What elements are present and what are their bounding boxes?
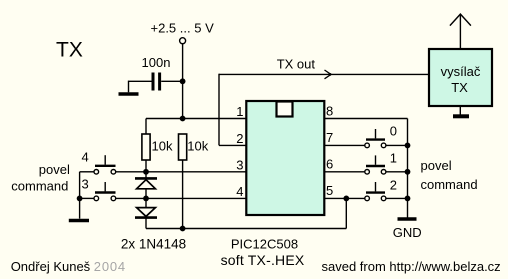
- wire pin5 row: [324, 197, 365, 199]
- svg-text:GND: GND: [393, 225, 422, 240]
- pushbutton S2: [365, 177, 397, 200]
- resistor R2 10k: [179, 134, 187, 229]
- ground (right bus): [398, 217, 417, 221]
- resistor R1 10k: [142, 119, 150, 179]
- node bus b0: [405, 143, 411, 149]
- svg-text:6: 6: [326, 157, 333, 172]
- antenna: [450, 14, 471, 49]
- diode D2 1N4148: [135, 198, 157, 228]
- wire bottom rail: [146, 228, 346, 230]
- ground (transmitter): [453, 106, 469, 116]
- wire button3 left: [80, 197, 94, 199]
- svg-text:PIC12C508: PIC12C508: [231, 236, 298, 251]
- wire supply vertical: [182, 44, 184, 119]
- node bottom junction: [180, 226, 186, 232]
- svg-text:povel: povel: [39, 162, 70, 177]
- svg-text:2x 1N4148: 2x 1N4148: [121, 237, 186, 252]
- wire TX out: [219, 73, 429, 75]
- svg-text:TX out: TX out: [277, 57, 316, 72]
- wire pin6 row: [324, 171, 365, 173]
- svg-text:+2.5 ... 5 V: +2.5 ... 5 V: [151, 20, 215, 35]
- svg-text:0: 0: [390, 124, 397, 139]
- node bus b1: [405, 169, 411, 175]
- node diode top: [143, 169, 149, 175]
- node left bus: [77, 196, 83, 202]
- wire bottom to pin5: [345, 198, 347, 228]
- pushbutton S1: [365, 150, 397, 174]
- svg-text:8: 8: [326, 103, 333, 118]
- pushbutton S0: [365, 124, 397, 148]
- node diode mid: [143, 196, 149, 202]
- svg-text:Ondřej Kuneš 2004: Ondřej Kuneš 2004: [11, 259, 126, 274]
- svg-text:1: 1: [236, 104, 243, 119]
- svg-text:5: 5: [326, 183, 333, 198]
- wire pin2 stub: [219, 144, 246, 146]
- svg-text:3: 3: [82, 177, 89, 192]
- svg-text:4: 4: [82, 149, 89, 164]
- svg-text:10k: 10k: [187, 139, 208, 154]
- capacitor C1 100n: [129, 73, 183, 93]
- pushbutton S4: [82, 149, 116, 174]
- svg-text:TX: TX: [56, 39, 83, 62]
- ground (left): [69, 219, 89, 223]
- arrow TX out: [325, 70, 332, 79]
- wire left bus: [79, 172, 81, 219]
- wire pin3 row: [116, 171, 246, 173]
- ground (capacitor): [119, 92, 139, 96]
- wire button4 left: [80, 171, 94, 173]
- svg-text:2: 2: [390, 177, 397, 192]
- wire right bus: [407, 119, 409, 218]
- svg-text:povel: povel: [421, 158, 452, 173]
- wire pin7 row: [324, 144, 365, 146]
- svg-text:3: 3: [236, 157, 243, 172]
- svg-text:4: 4: [236, 184, 243, 199]
- svg-text:100n: 100n: [142, 55, 171, 70]
- svg-text:command: command: [421, 177, 478, 192]
- svg-text:2: 2: [236, 131, 243, 146]
- svg-text:10k: 10k: [152, 139, 173, 154]
- svg-text:vysílač: vysílač: [441, 64, 481, 79]
- pushbutton S3: [82, 177, 116, 201]
- wire TX out vertical: [218, 74, 220, 146]
- node rail junction: [180, 116, 186, 122]
- wire top rail to pin1: [146, 118, 246, 120]
- svg-text:1: 1: [390, 150, 397, 165]
- node pin5 junction: [343, 196, 349, 202]
- svg-text:7: 7: [326, 130, 333, 145]
- svg-text:TX: TX: [451, 80, 468, 95]
- svg-text:command: command: [11, 179, 68, 194]
- node cap junction: [180, 78, 186, 84]
- node bus b2: [405, 196, 411, 202]
- transmitter module vysilac TX: [429, 49, 492, 106]
- svg-text:saved from http://www.belza.cz: saved from http://www.belza.cz: [322, 259, 501, 274]
- IC U1 PIC12C508: [246, 101, 324, 215]
- svg-text:soft TX-.HEX: soft TX-.HEX: [221, 252, 305, 268]
- wire pin4 row: [116, 197, 246, 199]
- wire pin8 row: [324, 118, 407, 120]
- diode D1 1N4148: [135, 178, 157, 198]
- supply terminal: [180, 38, 186, 44]
